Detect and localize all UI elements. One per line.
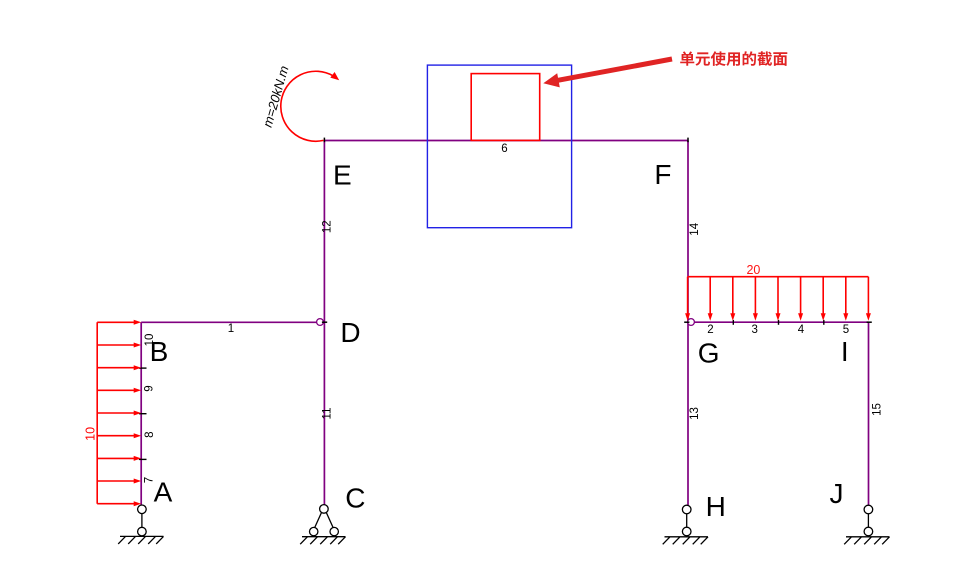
red section rectangle xyxy=(471,74,540,141)
svg-text:5: 5 xyxy=(843,324,849,336)
wire: column E-D-C (members 12, 11) xyxy=(323,141,325,506)
svg-text:3: 3 xyxy=(751,324,757,336)
node tick between members 8 and 7 xyxy=(139,458,147,460)
svg-text:8: 8 xyxy=(144,431,156,437)
wire: column B-A (members 10, 9, 8, 7) xyxy=(140,322,142,505)
wire: column F-G-H (members 14, 13) xyxy=(687,141,689,506)
distributed load 20 on beam G-I xyxy=(685,277,871,321)
svg-text:14: 14 xyxy=(689,222,701,235)
wire: beam B-D (member 1) xyxy=(141,321,317,323)
node F tick xyxy=(687,138,689,143)
node D hinge circle xyxy=(317,319,324,326)
svg-text:20: 20 xyxy=(746,263,760,277)
node tick between members 3 and 4 xyxy=(778,320,780,325)
wire: beam E-F (member 6) xyxy=(324,140,688,142)
svg-text:1: 1 xyxy=(228,323,234,335)
moment arrowhead xyxy=(330,72,339,80)
node G tick xyxy=(684,321,689,323)
node I tick xyxy=(867,321,872,323)
svg-text:7: 7 xyxy=(144,477,156,483)
svg-text:12: 12 xyxy=(322,220,334,233)
svg-text:C: C xyxy=(345,483,365,514)
support H: roller link xyxy=(663,505,708,544)
svg-text:G: G xyxy=(698,337,720,368)
support J: roller link xyxy=(844,505,889,544)
support A: roller link xyxy=(118,505,163,544)
node tick between members 10 and 9 xyxy=(139,367,147,369)
wire: column I-J (member 15) xyxy=(868,322,870,505)
svg-text:I: I xyxy=(841,336,849,367)
support C: pinned (two links) xyxy=(300,505,345,545)
svg-text:10: 10 xyxy=(83,427,97,441)
svg-text:A: A xyxy=(154,477,173,508)
svg-text:m=20kN.m: m=20kN.m xyxy=(260,64,292,129)
callout text: 单元使用的截面 xyxy=(680,51,787,66)
svg-text:13: 13 xyxy=(689,407,701,420)
svg-text:11: 11 xyxy=(322,408,334,420)
svg-text:J: J xyxy=(830,478,844,509)
svg-text:2: 2 xyxy=(707,324,713,336)
svg-text:E: E xyxy=(333,159,352,190)
svg-text:H: H xyxy=(706,491,726,522)
node tick between members 2 and 3 xyxy=(732,320,734,325)
svg-text:D: D xyxy=(340,317,360,348)
blue selection rectangle xyxy=(427,65,571,228)
wire: beam G-I (members 2, 3, 4, 5) xyxy=(694,321,868,323)
callout thick red arrow xyxy=(543,73,560,87)
node tick between members 9 and 8 xyxy=(139,413,147,415)
svg-text:6: 6 xyxy=(501,143,507,155)
svg-text:15: 15 xyxy=(871,403,883,416)
node D tick xyxy=(322,321,327,323)
svg-text:F: F xyxy=(654,159,671,190)
node E tick xyxy=(323,138,325,143)
moment m=20kN.m arc xyxy=(281,71,333,141)
node G hinge circle xyxy=(688,319,695,326)
node tick between members 4 and 5 xyxy=(823,320,825,325)
svg-text:4: 4 xyxy=(798,324,805,336)
svg-text:10: 10 xyxy=(144,334,156,347)
distributed load 10 on column A-B xyxy=(97,320,141,506)
svg-text:9: 9 xyxy=(144,385,156,391)
